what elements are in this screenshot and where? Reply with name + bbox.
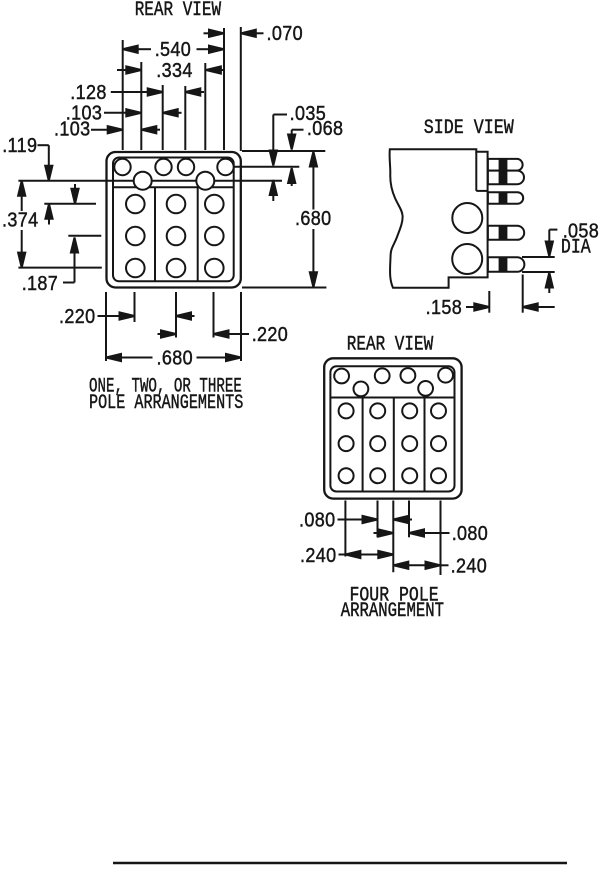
dimension .680 (right vertical) [295, 152, 331, 288]
dimension .080 (left) [299, 510, 412, 532]
bottom extension line housing left edge [105, 292, 107, 361]
bottom extension line grid col2 [175, 292, 177, 338]
svg-text:.103: .103 [54, 119, 90, 141]
svg-text:DIA: DIA [561, 236, 592, 259]
four pole divider lines [362, 398, 364, 492]
right side: top hole row line extension [234, 166, 300, 168]
dimension .220 (left) [59, 306, 195, 328]
contact pin 4 [488, 226, 524, 240]
second row holes [134, 172, 215, 190]
dimension .068 leader [288, 118, 343, 149]
footer rule [113, 862, 567, 864]
svg-text:.128: .128 [70, 82, 106, 104]
side view large circle lower [452, 244, 482, 274]
extension line hole col4 [223, 28, 225, 150]
extension line hole col3 [184, 86, 186, 150]
four pole band bottom line [330, 397, 454, 399]
svg-text:.374: .374 [2, 209, 38, 231]
bottom extension line housing right edge [240, 292, 242, 361]
dimension .035 leader [270, 103, 326, 165]
dimension .240 (right) [393, 555, 487, 577]
svg-text:REAR VIEW: REAR VIEW [347, 334, 434, 356]
pole divider lines [154, 187, 156, 281]
svg-text:.680: .680 [157, 348, 193, 370]
extension line row2-hole right [204, 63, 206, 150]
svg-text:.680: .680 [295, 208, 331, 230]
node line through second hole row (left and right extension) [18, 180, 282, 182]
extension line side view body right edge [488, 291, 490, 313]
four pole top row holes [334, 368, 453, 384]
dimension .220 (right) [158, 324, 289, 346]
dimension .035 lower arrow [270, 180, 277, 201]
mounting band bottom line [113, 186, 234, 188]
four pole extension line col3 [408, 501, 410, 538]
svg-text:.220: .220 [252, 324, 288, 346]
four pole second row holes [354, 381, 434, 396]
contact pin 3 [488, 192, 523, 204]
four pole contact hole grid 4x3 [339, 403, 446, 483]
contact pin 2 [488, 171, 524, 185]
dimension .187 upper arrow [71, 184, 78, 204]
svg-text:.068: .068 [307, 118, 343, 140]
extension line row2-hole left [140, 62, 142, 150]
pin retention bands (black) [499, 159, 508, 271]
four pole extension line col1 [344, 501, 346, 557]
dimension .103 (lower) [54, 119, 160, 141]
dimension .070 [204, 23, 303, 45]
dimension .103 (upper) [66, 102, 182, 124]
side view body outline with wavy left edge [390, 149, 488, 287]
contact hole grid 3x3 [126, 195, 224, 278]
dimension .158 [426, 297, 555, 319]
dimension .068 lower arrow [288, 168, 295, 186]
svg-text:REAR VIEW: REAR VIEW [135, 0, 222, 22]
svg-text:.220: .220 [59, 306, 95, 328]
svg-text:ARRANGEMENT: ARRANGEMENT [341, 600, 445, 622]
housing bottom edge extension right [242, 287, 326, 289]
dimension .187 lower arrow and leader [22, 238, 78, 296]
svg-text:.158: .158 [426, 297, 462, 319]
svg-text:.240: .240 [300, 545, 336, 567]
right side: housing top edge extension [242, 150, 325, 152]
svg-text:SIDE VIEW: SIDE VIEW [424, 117, 515, 140]
bottom extension line grid col1 [134, 292, 136, 322]
contact pin 1 [488, 159, 523, 171]
svg-text:.540: .540 [155, 39, 191, 61]
four pole housing inner outline [330, 366, 454, 491]
dimension .240 (left) [300, 545, 393, 567]
dimension .058 lower arrow [546, 273, 553, 294]
extension line hole col1 [122, 40, 124, 150]
svg-text:.080: .080 [299, 510, 335, 532]
extension line grid row1 [44, 203, 96, 205]
extension line housing right edge [240, 27, 242, 151]
svg-text:.187: .187 [22, 273, 58, 295]
rear view housing outer outline [107, 152, 241, 288]
four pole extension line centerline [392, 501, 394, 573]
extension line pin tip [522, 275, 524, 313]
extension line grid row2 [68, 235, 101, 237]
dimension .374 [2, 181, 38, 268]
contact pin 5 [488, 257, 524, 272]
dimension .128 [70, 82, 204, 104]
rear view housing inner outline [113, 158, 234, 282]
four pole housing outer outline [324, 358, 461, 498]
svg-text:.119: .119 [2, 135, 37, 157]
dimension .058 DIA leader [546, 221, 599, 259]
svg-text:POLE ARRANGEMENTS: POLE ARRANGEMENTS [89, 392, 243, 415]
dimension .080 (right) [374, 523, 489, 545]
pin diameter line bottom [522, 271, 555, 273]
pin diameter line top [522, 256, 555, 258]
extension line hole col2 [162, 85, 164, 150]
svg-text:.240: .240 [451, 555, 487, 577]
dimension .334 [117, 60, 225, 82]
dimension .680 (bottom) [106, 348, 241, 370]
side view large circle upper [452, 203, 482, 233]
svg-text:.334: .334 [156, 60, 192, 82]
dimension .540 [123, 39, 224, 61]
dimension .119 leader [2, 135, 52, 224]
four pole extension line col2 [377, 501, 379, 538]
extension line grid row3 [18, 267, 101, 269]
bottom extension line grid col3 [213, 292, 215, 338]
svg-text:.080: .080 [452, 523, 488, 545]
top row holes [114, 159, 233, 175]
four pole extension line col4 [440, 501, 442, 576]
side view inner step line [475, 152, 477, 191]
svg-text:.070: .070 [267, 23, 303, 45]
